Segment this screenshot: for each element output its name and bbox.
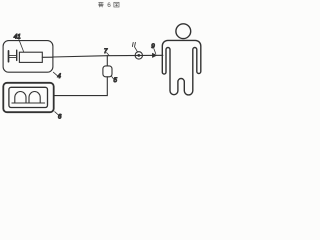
- syringe plunger rod: [9, 56, 16, 58]
- leader line 4: [53, 72, 57, 76]
- svg-text:9: 9: [151, 43, 155, 50]
- syringe plunger thumb bar: [8, 51, 10, 62]
- wire: junction down to box 5: [106, 56, 108, 66]
- syringe barrel: [19, 52, 42, 62]
- leader line 5: [112, 76, 115, 79]
- leader line 41: [19, 39, 24, 51]
- wire: box 5 down then left to oscilloscope: [54, 77, 107, 96]
- oscilloscope 6 outer box: [3, 83, 53, 112]
- human figure head: [176, 24, 191, 39]
- label 11: [132, 42, 135, 46]
- oscilloscope screen inner box: [9, 87, 48, 107]
- caption 图: [114, 2, 119, 7]
- box 4 (stimulator unit, rounded rectangle): [3, 41, 53, 73]
- waveform arch 1: [15, 92, 26, 103]
- wire: main horizontal from box 4 to figure arm: [53, 55, 163, 57]
- syringe output stub to box edge: [42, 56, 53, 58]
- leader line 6: [55, 112, 59, 116]
- svg-text:4: 4: [57, 73, 61, 80]
- node 7 junction tick: [107, 53, 110, 56]
- svg-text:6: 6: [107, 2, 111, 9]
- human figure body outline: [162, 40, 201, 95]
- syringe barrel flange: [16, 50, 18, 60]
- caption 第: [98, 2, 103, 7]
- waveform arch 2: [29, 92, 40, 104]
- box 5 (pickup / sensor): [103, 66, 112, 77]
- caption 6: [107, 2, 111, 9]
- svg-text:7: 7: [104, 48, 108, 55]
- svg-text:41: 41: [14, 33, 21, 40]
- leader line 11: [135, 47, 138, 52]
- waveform baseline: [12, 102, 45, 104]
- leader line 9: [154, 49, 156, 54]
- electrode 11 (circle with dot): [135, 52, 142, 59]
- arrow 9 (arrowhead on wire into arm): [153, 53, 157, 57]
